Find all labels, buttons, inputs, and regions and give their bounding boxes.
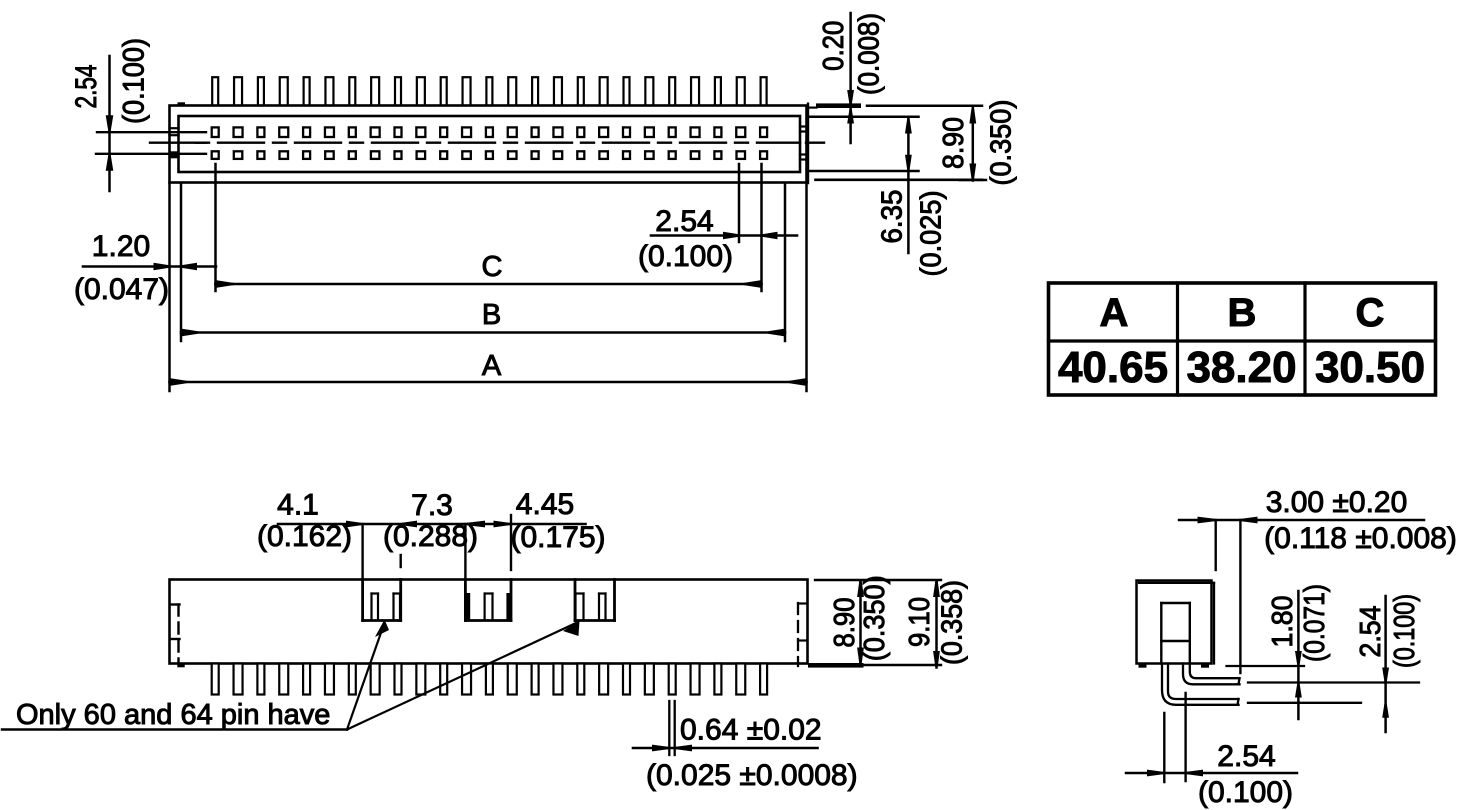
front view: left hidden dashed edge	[170, 605, 180, 664]
front view: body rectangle	[170, 580, 808, 664]
end view: upper internal line	[809, 116, 919, 119]
table: row divider	[1049, 339, 1436, 342]
table: column divider 2	[1303, 283, 1306, 395]
dim 6.35: vertical dimension line	[907, 118, 910, 253]
dim 1.80: upper arrowhead	[1295, 651, 1302, 665]
front view: pin-1 mark on bottom edge	[177, 664, 184, 668]
dim 0.64: dimension line	[633, 747, 818, 750]
dim 4.45: label 4.45	[516, 488, 574, 521]
note: leader 1 arrowhead	[375, 620, 389, 638]
svg-text:(0.100): (0.100)	[118, 38, 151, 124]
dim 2.54 bottom: ext line lower pin center	[1163, 713, 1165, 782]
dim 0.64: label (0.025 ±0.0008)	[646, 759, 858, 792]
svg-text:(0.025 ±0.0008): (0.025 ±0.0008)	[646, 759, 858, 792]
dim 0.64: right arrowhead	[676, 745, 692, 752]
table: column divider 1	[1176, 283, 1179, 395]
top view: pin-1 polarity mark on top edge	[178, 102, 186, 106]
svg-text:(0.350): (0.350)	[986, 100, 1018, 186]
top view: row 1 contact holes (25 squares)	[212, 127, 767, 137]
dim 2.54 row-pitch: label (0.100)	[118, 38, 151, 124]
top view: left notch upper	[170, 128, 179, 135]
svg-text:(0.358): (0.358)	[937, 580, 969, 665]
dim 2.54 pin-pitch: right arrowhead	[762, 232, 778, 240]
extension line pin24 center (2.54 pitch dim)	[738, 164, 741, 242]
svg-text:8.90: 8.90	[829, 598, 861, 648]
dim A: left arrowhead	[171, 378, 187, 386]
end view: thick top lip bar	[816, 103, 861, 108]
dim 2.54 row-pitch: leader line row2	[96, 153, 206, 155]
dim 8.90 top: bottom tick	[960, 179, 987, 181]
svg-text:7.3: 7.3	[411, 489, 453, 522]
end view: bottom surface line	[816, 179, 983, 182]
svg-text:(0.100): (0.100)	[638, 240, 733, 273]
top view: row of 25 mating pins on top edge	[212, 77, 766, 107]
detail: lower pin bottom extension line	[1248, 702, 1361, 704]
table: header C	[1356, 291, 1385, 335]
dim 3.00: ext line pin tip	[1239, 520, 1241, 673]
svg-text:(0.008): (0.008)	[854, 13, 886, 95]
dim 0.20: label (0.008)	[854, 13, 886, 95]
dim 9.10: label 9.10	[904, 597, 936, 647]
dim 2.54 pin-pitch: label (0.100)	[638, 240, 733, 273]
detail: lower bent pin inner edge	[1168, 664, 1239, 700]
note: leader line to slot 3	[347, 623, 576, 730]
dim 1.20: right arrowhead	[181, 263, 197, 271]
note: underline	[2, 728, 347, 730]
dim 9.10: vertical dimension line	[935, 581, 938, 668]
svg-text:3.00 ±0.20: 3.00 ±0.20	[1266, 486, 1408, 519]
top view: right notch upper	[800, 127, 807, 132]
dim 1.20: label 1.20	[92, 230, 150, 263]
table: value 40.65	[1058, 343, 1168, 392]
dim A: dimension line	[170, 381, 807, 384]
dim 2.54 row-pitch: lower arrowhead	[106, 155, 114, 171]
dim 1.80: lower arrowhead	[1295, 684, 1302, 698]
dim 2.54 pin-pitch: dimension line	[651, 234, 797, 237]
dim 2.54 row-pitch: label 2.54	[70, 65, 103, 109]
dim B: dimension line	[181, 331, 785, 334]
top view: connector body inner rectangle	[179, 116, 801, 172]
svg-text:40.65: 40.65	[1058, 343, 1168, 392]
dim 2.54 right: upper arrowhead	[1382, 668, 1389, 682]
end view: top-left step	[809, 106, 817, 108]
detail: upper bent pin inner edge	[1190, 664, 1240, 679]
table: header A	[1100, 291, 1129, 335]
end view: top surface line	[867, 104, 982, 107]
svg-text:(0.100): (0.100)	[1198, 776, 1293, 809]
dim 4.1: left arrowhead	[346, 521, 361, 528]
note: leader 2 arrowhead	[563, 621, 580, 637]
front view: row of 25 solder pins below body	[212, 664, 767, 695]
front view: side profile top line	[815, 579, 941, 581]
dim 4.1: label 4.1	[277, 489, 319, 522]
dim 7.3: right arrowhead	[467, 521, 485, 528]
top view: row 2 contact holes (25 squares)	[212, 151, 767, 159]
svg-text:B: B	[482, 299, 501, 331]
dim 2.54 right: lower arrowhead	[1382, 704, 1389, 718]
detail: inner slot right edge	[1189, 603, 1191, 664]
end view: left edge	[807, 104, 809, 183]
svg-text:6.35: 6.35	[877, 190, 909, 244]
dim 0.64: pin width extension lines	[669, 701, 674, 755]
svg-text:A: A	[482, 350, 502, 382]
svg-text:4.1: 4.1	[277, 489, 319, 522]
dim 2.54 row-pitch: leader line centerline	[150, 141, 206, 143]
dim 9.10: label (0.358)	[937, 580, 969, 665]
dim 6.35: label (0.025)	[916, 191, 948, 277]
table: value 38.20	[1186, 343, 1296, 392]
dim A: label A	[482, 350, 502, 382]
dim 1.80: label 1.80	[1267, 596, 1299, 648]
svg-text:0.20: 0.20	[818, 21, 850, 71]
svg-text:B: B	[1228, 291, 1257, 335]
dim 2.54 pin-pitch: left arrowhead	[723, 232, 739, 240]
front view: slot 3 left prong	[576, 594, 584, 621]
dim 3.00: dimension line	[1179, 519, 1424, 522]
extension line B-right	[784, 183, 787, 341]
table: outer border	[1049, 283, 1436, 395]
dim 8.90 bottom: lower arrowhead	[857, 648, 864, 664]
svg-text:2.54: 2.54	[1217, 740, 1275, 773]
front view: slot 2 center prong	[485, 594, 493, 621]
dim 2.54 row-pitch: vertical dimension line	[108, 56, 111, 191]
dim 6.35: label 6.35	[877, 190, 909, 244]
svg-text:(0.047): (0.047)	[74, 273, 169, 306]
svg-text:(0.071): (0.071)	[1299, 584, 1331, 662]
dim 7.3: label (0.288)	[383, 520, 478, 553]
dim 4.45: label (0.175)	[510, 521, 605, 554]
dim 8.90 top: upper arrowhead	[969, 108, 976, 124]
dim group: ext line slot1 left	[361, 524, 363, 580]
dim 3.00: left arrowhead	[1198, 517, 1215, 524]
svg-text:1.80: 1.80	[1267, 596, 1299, 648]
svg-text:(0.288): (0.288)	[383, 520, 478, 553]
dim C: left arrowhead	[216, 280, 233, 288]
extension line A-left / body left edge	[168, 183, 171, 391]
svg-text:(0.350): (0.350)	[859, 575, 891, 661]
dim 2.54 bottom: label 2.54	[1217, 740, 1275, 773]
svg-text:2.54: 2.54	[70, 65, 103, 109]
svg-text:2.54: 2.54	[655, 205, 713, 238]
extension line C-right / pin25 center	[760, 164, 763, 291]
detail: inner slot left edge	[1160, 603, 1162, 664]
front view: slot 3 right prong	[599, 594, 606, 621]
detail: inner slot top edge	[1161, 602, 1190, 604]
dim 2.54 bottom: ext line upper pin center	[1184, 693, 1186, 781]
dim 9.10: upper arrowhead	[933, 581, 940, 597]
top view: dashed centerline	[196, 141, 824, 143]
dim 8.90 bottom: upper arrowhead	[857, 581, 864, 597]
dim group: ext line slot2 right	[510, 515, 512, 570]
front view: slot 1 right prong	[394, 594, 401, 621]
dim 6.35: lower arrowhead	[905, 155, 912, 170]
detail: body double edge top	[1139, 582, 1214, 584]
dim 4.45: left arrowhead	[494, 521, 510, 528]
detail: inner slot divider	[1161, 640, 1190, 642]
dim 2.54 bottom: dimension line	[1126, 772, 1297, 775]
dim group: ext stub slot1 right	[400, 555, 402, 567]
dim 0.20: label 0.20	[818, 21, 850, 71]
svg-text:(0.162): (0.162)	[257, 520, 352, 553]
dim 4.1: label (0.162)	[257, 520, 352, 553]
front view: side profile thick bottom bar	[808, 663, 864, 668]
dim 7.3: label 7.3	[411, 489, 453, 522]
dim 2.54 bottom: label (0.100)	[1198, 776, 1293, 809]
front view: side profile thin bottom line	[861, 664, 942, 666]
dim C: right arrowhead	[745, 280, 761, 288]
dim 1.20: dimension line	[83, 265, 216, 268]
dim A: right arrowhead	[790, 378, 806, 386]
dim 1.80: label (0.071)	[1299, 584, 1331, 662]
extension line B-left	[180, 183, 183, 341]
detail: upper bent pin Q1 outer edge	[1183, 664, 1240, 685]
detail: seating plane extension line	[1227, 665, 1305, 667]
svg-text:Only 60 and 64 pin have: Only 60 and 64 pin have	[16, 699, 330, 731]
svg-text:1.20: 1.20	[92, 230, 150, 263]
dim 8.90 top: vertical dimension line	[972, 107, 975, 181]
detail: left foot	[1139, 664, 1147, 668]
detail: lower bent pin outer edge	[1162, 664, 1239, 705]
svg-text:30.50: 30.50	[1315, 343, 1425, 392]
svg-text:8.90: 8.90	[938, 117, 970, 169]
dim 0.64: left arrowhead	[652, 745, 668, 752]
dim 8.90 top: label (0.350)	[986, 100, 1018, 186]
extension line A-right / body right edge	[805, 183, 808, 391]
dim 9.10: lower arrowhead	[933, 651, 940, 667]
detail: upper pin bottom extension line	[1248, 681, 1419, 683]
dim 1.80: vertical dimension line	[1297, 591, 1300, 719]
note: leader line to slot 1	[347, 627, 383, 730]
detail: body outer square	[1137, 581, 1212, 664]
end view: lower internal line	[809, 170, 919, 173]
dim 8.90 bottom: label (0.350)	[859, 575, 891, 661]
top view: right notch lower	[800, 155, 807, 160]
svg-text:38.20: 38.20	[1186, 343, 1296, 392]
dim B: left arrowhead	[182, 329, 198, 337]
dim 2.54 row-pitch: leader line row1	[97, 131, 206, 133]
dim 2.54 right: vertical dimension line	[1384, 596, 1387, 732]
dim 0.64: label 0.64 ±0.02	[680, 714, 822, 747]
note: Only 60 and 64 pin have	[16, 699, 330, 731]
front view: right hidden dashed edge	[798, 603, 806, 666]
table: value 30.50	[1315, 343, 1425, 392]
front view: slot 1 left prong	[372, 594, 379, 621]
dim B: label B	[482, 299, 501, 331]
detail: right foot	[1201, 664, 1209, 668]
detail: lower pin end cap	[1238, 699, 1239, 705]
front view: slot 2 thick left wall	[465, 593, 470, 621]
dim C: dimension line	[216, 283, 762, 286]
svg-text:2.54: 2.54	[1355, 606, 1387, 658]
dim 8.90 top: label 8.90	[938, 117, 970, 169]
detail: body double edge right	[1213, 583, 1215, 664]
svg-text:C: C	[1356, 291, 1385, 335]
front view: polarization slot 3 outline	[575, 580, 615, 621]
dim group: ext line slot2 left	[464, 524, 466, 580]
dim 2.54 row-pitch: upper arrowhead	[106, 115, 114, 131]
svg-text:(0.100): (0.100)	[1389, 594, 1421, 668]
dim 0.20: lower arrowhead	[847, 110, 854, 124]
dim B: right arrowhead	[768, 329, 784, 337]
svg-text:(0.025): (0.025)	[916, 191, 948, 277]
top view: connector body outer rectangle	[170, 106, 807, 183]
dim 4.1: right arrowhead	[402, 521, 417, 528]
front view: polarization slot 2 outline	[465, 580, 511, 621]
dim 8.90 top: lower arrowhead	[969, 164, 976, 180]
dim 2.54 bottom: left arrowhead	[1147, 770, 1163, 777]
dim 1.20: label (0.047)	[74, 273, 169, 306]
svg-text:9.10: 9.10	[904, 597, 936, 647]
svg-text:C: C	[482, 251, 503, 283]
dim 3.00: right arrowhead	[1242, 517, 1258, 524]
front view: polarization slot 1 outline	[363, 580, 401, 621]
dim 2.54 right: label (0.100)	[1389, 594, 1421, 668]
extension line C-left / pin1 center	[214, 164, 217, 291]
svg-text:0.64 ±0.02: 0.64 ±0.02	[680, 714, 822, 747]
dim 3.00: label 3.00 ±0.20	[1266, 486, 1408, 519]
dim 1.20: left arrowhead	[154, 263, 170, 271]
front view: slot 2 thick right wall	[506, 593, 511, 621]
top view: left notch lower (filled)	[170, 151, 179, 158]
dim 8.90 bottom: label 8.90	[829, 598, 861, 648]
svg-text:(0.118 ±0.008): (0.118 ±0.008)	[1264, 522, 1457, 555]
dim 2.54 bottom: right arrowhead	[1187, 770, 1203, 777]
svg-text:4.45: 4.45	[516, 488, 574, 521]
dim 2.54 right: label 2.54	[1355, 606, 1387, 658]
svg-text:A: A	[1100, 291, 1129, 335]
dim 2.54 pin-pitch: label 2.54	[655, 205, 713, 238]
dim C: label C	[482, 251, 503, 283]
table: header B	[1228, 291, 1257, 335]
dim 6.35: upper arrowhead	[905, 119, 912, 134]
dim 3.00: ext line body right	[1214, 520, 1216, 570]
svg-text:(0.175): (0.175)	[510, 521, 605, 554]
detail: upper pin end cap	[1239, 678, 1240, 684]
dim 8.90 bottom: vertical dimension line	[859, 582, 862, 665]
dim 3.00: label (0.118 ±0.008)	[1264, 522, 1457, 555]
dim 4.1/7.3/4.45: dimension line	[278, 523, 586, 526]
dim 0.20: upper arrowhead	[847, 90, 854, 104]
dim 0.20: vertical dimension line	[849, 13, 852, 143]
